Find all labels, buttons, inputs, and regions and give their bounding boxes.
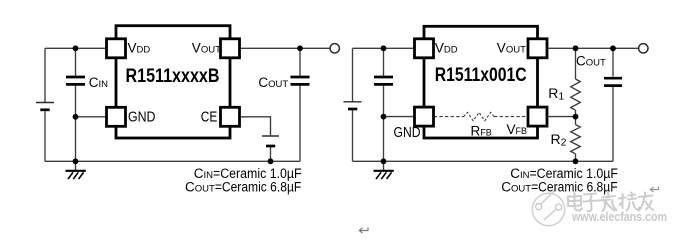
svg-text:R1511x001C: R1511x001C <box>435 65 527 86</box>
svg-text:CE: CE <box>201 109 218 126</box>
svg-text:GND: GND <box>394 124 421 141</box>
svg-text:www.elecfans.com: www.elecfans.com <box>571 210 667 224</box>
svg-text:R1511xxxxB: R1511xxxxB <box>126 66 220 87</box>
svg-text:GND: GND <box>128 108 156 125</box>
